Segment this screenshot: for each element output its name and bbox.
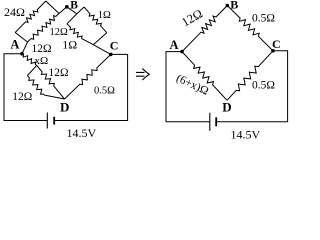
svg-text:C: C bbox=[110, 39, 119, 53]
svg-text:B: B bbox=[230, 0, 238, 12]
svg-text:B: B bbox=[70, 0, 78, 12]
svg-text:12Ω: 12Ω bbox=[49, 67, 69, 79]
svg-text:14.5V: 14.5V bbox=[67, 126, 97, 140]
svg-text:D: D bbox=[60, 100, 69, 115]
svg-text:1Ω: 1Ω bbox=[62, 38, 77, 52]
svg-text:12Ω: 12Ω bbox=[50, 27, 69, 38]
svg-text:C: C bbox=[272, 37, 281, 51]
svg-text:D: D bbox=[222, 100, 231, 115]
svg-text:A: A bbox=[170, 38, 179, 52]
svg-text:14.5V: 14.5V bbox=[231, 127, 261, 141]
svg-text:0.5Ω: 0.5Ω bbox=[252, 80, 275, 92]
svg-text:12Ω: 12Ω bbox=[32, 43, 52, 55]
svg-text:A: A bbox=[10, 38, 19, 52]
svg-text:0.5Ω: 0.5Ω bbox=[252, 13, 275, 25]
svg-text:24Ω: 24Ω bbox=[4, 5, 25, 19]
svg-text:0.5Ω: 0.5Ω bbox=[94, 86, 115, 97]
svg-text:12Ω: 12Ω bbox=[12, 91, 32, 103]
svg-text:xΩ: xΩ bbox=[35, 55, 49, 67]
svg-text:1Ω: 1Ω bbox=[98, 10, 111, 21]
